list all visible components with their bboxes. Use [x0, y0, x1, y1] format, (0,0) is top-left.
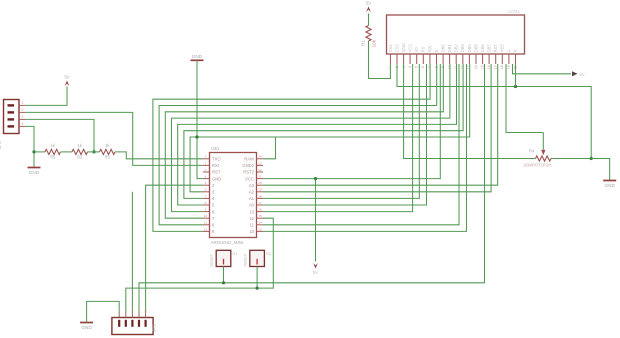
wire LCD data bundle 7 (to Arduino pin 3)	[190, 64, 470, 192]
ground (bottom)	[80, 323, 93, 330]
switch S1	[209, 250, 237, 266]
svg-text:A1: A1	[249, 196, 255, 201]
svg-text:K: K	[513, 49, 518, 52]
svg-text:GND: GND	[29, 170, 40, 175]
svg-text:RST: RST	[212, 170, 221, 175]
junction S1	[222, 281, 225, 284]
svg-text:5V: 5V	[366, 0, 371, 5]
wire JP2 pin2 to RXI	[26, 112, 203, 165]
junction LCD pin20 on GND rail	[514, 85, 517, 88]
svg-text:4: 4	[138, 309, 140, 313]
svg-text:RST2: RST2	[243, 170, 254, 175]
wire S1 to rail	[223, 267, 225, 283]
svg-text:RST: RST	[493, 44, 498, 53]
supply 5V (above R1)	[366, 0, 371, 12]
JP2 pins	[8, 104, 26, 127]
wire LCD data bundle 6 (to Arduino pin 4)	[184, 64, 463, 198]
wire Arduino 2 to JP1 pin5	[146, 185, 203, 312]
JP1 pins	[118, 313, 147, 327]
wire Arduino 11 to LCD	[263, 64, 459, 225]
junction S2	[256, 287, 259, 290]
svg-text:GND: GND	[604, 183, 615, 188]
resistor R3	[100, 143, 116, 159]
svg-text:5: 5	[205, 181, 207, 185]
svg-text:CS2: CS2	[394, 44, 399, 53]
svg-text:VCC: VCC	[245, 176, 254, 181]
wire Arduino A3 to LCD	[263, 64, 498, 185]
svg-text:R2: R2	[77, 155, 83, 160]
svg-text:GND: GND	[192, 54, 203, 59]
LCD module LCD1 outline	[387, 9, 525, 54]
svg-text:V0: V0	[414, 46, 419, 52]
svg-text:15: 15	[258, 214, 262, 218]
wire LCD data bundle 3 (to Arduino pin 7)	[165, 64, 443, 218]
wire Arduino A1 to LCD	[263, 64, 419, 198]
svg-text:19: 19	[507, 65, 511, 69]
svg-text:10: 10	[249, 229, 254, 234]
wire Arduino 13 to LCD	[263, 64, 413, 212]
JP2 pin numbers	[22, 101, 24, 126]
svg-text:9: 9	[205, 208, 207, 212]
svg-text:14: 14	[474, 65, 478, 69]
svg-text:13: 13	[249, 209, 254, 214]
svg-text:A0: A0	[249, 203, 255, 208]
svg-text:7: 7	[205, 194, 207, 198]
junction chain left	[32, 150, 35, 153]
svg-text:RAW: RAW	[244, 157, 254, 162]
svg-text:5: 5	[145, 309, 147, 313]
svg-text:2: 2	[22, 108, 24, 112]
ground (left)	[28, 168, 41, 175]
svg-text:TXO: TXO	[212, 157, 221, 162]
svg-text:DB1: DB1	[447, 44, 452, 53]
resistor R5	[34, 143, 61, 159]
svg-text:LCD1: LCD1	[509, 9, 521, 14]
svg-text:E: E	[434, 49, 439, 52]
resistor R1	[361, 14, 377, 48]
svg-text:3: 3	[131, 309, 133, 313]
svg-text:3: 3	[22, 115, 24, 119]
ground (right)	[603, 181, 616, 188]
svg-text:GND: GND	[401, 43, 406, 52]
svg-text:R3: R3	[105, 155, 111, 160]
svg-text:10: 10	[204, 214, 208, 218]
svg-text:DB6: DB6	[480, 44, 485, 53]
wire S1 rail	[139, 64, 485, 313]
connector JP2 outline	[0, 100, 19, 150]
svg-text:11: 11	[250, 223, 255, 228]
trimpot R4	[523, 133, 591, 168]
svg-text:R4: R4	[529, 149, 535, 154]
wire top GND to Arduino GND pin	[197, 60, 203, 178]
wire LCD data bundle 1 (to Arduino pin 9)	[153, 64, 430, 231]
svg-text:19: 19	[258, 188, 262, 192]
svg-text:12: 12	[249, 216, 254, 221]
svg-text:1: 1	[22, 101, 24, 105]
svg-text:23: 23	[258, 161, 262, 165]
svg-text:18: 18	[500, 65, 504, 69]
wire LCD pin19 to port	[513, 64, 572, 74]
svg-text:18: 18	[258, 194, 262, 198]
wire VCC branch to 5V arrow	[315, 179, 317, 262]
wire JP2 pin4 to GND	[26, 126, 34, 167]
wire R5-R2	[61, 151, 73, 153]
svg-text:U$1: U$1	[211, 146, 220, 151]
svg-text:RESET: RESET	[243, 253, 248, 267]
wire LCD data bundle 4 (to Arduino pin 6)	[172, 64, 450, 212]
svg-text:GND: GND	[81, 325, 92, 330]
svg-text:5V: 5V	[64, 74, 69, 79]
connector JP1 outline	[112, 318, 157, 335]
wire R3 to TXO	[115, 152, 203, 159]
wire Arduino 10 to LCD	[263, 64, 466, 231]
svg-text:6: 6	[421, 66, 425, 68]
wire R2-R3	[88, 151, 100, 153]
wire LCD pin2 GND rail	[397, 64, 591, 159]
port arrow 5V (right)	[572, 71, 585, 77]
svg-text:DB3: DB3	[460, 44, 465, 53]
svg-text:2: 2	[205, 161, 207, 165]
junction GND / bundle	[195, 135, 198, 138]
svg-text:21: 21	[258, 175, 262, 179]
wire S2 to rail	[256, 267, 258, 289]
switch S2	[243, 250, 271, 266]
resistor R2	[72, 143, 88, 159]
LCD pin numbers	[388, 65, 517, 69]
wire JP2 pin1 to 5V	[26, 87, 67, 106]
svg-text:14: 14	[258, 221, 262, 225]
svg-text:22: 22	[258, 168, 262, 172]
svg-text:1: 1	[118, 309, 120, 313]
svg-text:16: 16	[258, 208, 262, 212]
wire Arduino 3 branch to JP1 pin3	[131, 192, 133, 313]
JP1 pin numbers	[118, 309, 146, 313]
svg-text:5V: 5V	[313, 270, 318, 275]
svg-text:2: 2	[125, 309, 127, 313]
arduino pins	[203, 155, 263, 234]
svg-text:S2: S2	[266, 251, 271, 256]
svg-text:R5: R5	[50, 155, 56, 160]
wire R4 wiper to LCD pin18	[506, 64, 543, 133]
junction divider mid	[92, 150, 95, 153]
svg-text:5V: 5V	[580, 72, 585, 77]
junction GND rail / pot	[590, 157, 593, 160]
svg-text:JP1: JP1	[152, 324, 157, 332]
wire R1 to LCD pin1	[369, 41, 391, 79]
svg-text:S1: S1	[233, 251, 238, 256]
supply 5V (left)	[64, 74, 69, 86]
wire LCD pin3 to R4	[404, 64, 536, 159]
supply 5V (down)	[313, 263, 318, 275]
svg-text:11: 11	[204, 221, 207, 225]
svg-text:4: 4	[408, 66, 412, 68]
wire rail to GND symbol	[591, 159, 610, 181]
svg-text:ARDUINO_MINI: ARDUINO_MINI	[211, 240, 244, 245]
wire Arduino 12 to S2 rail	[126, 218, 273, 312]
svg-text:17: 17	[258, 201, 262, 205]
svg-text:15: 15	[480, 65, 484, 69]
wire bottom GND to JP1 pin1	[87, 301, 120, 322]
svg-text:1: 1	[388, 66, 392, 68]
svg-text:A2: A2	[249, 190, 255, 195]
svg-text:JP2: JP2	[0, 141, 2, 149]
svg-text:DB4: DB4	[467, 44, 472, 53]
svg-text:12: 12	[204, 227, 208, 231]
svg-text:4: 4	[22, 122, 24, 126]
svg-text:24: 24	[258, 155, 262, 159]
wire Arduino GND2 riser	[263, 137, 275, 159]
ground (top)	[191, 54, 204, 61]
svg-text:5: 5	[415, 66, 419, 68]
svg-text:RESET: RESET	[209, 253, 214, 267]
svg-text:3: 3	[205, 168, 207, 172]
svg-text:DB0: DB0	[441, 44, 446, 53]
svg-text:RS: RS	[421, 46, 426, 52]
svg-text:CS1: CS1	[388, 44, 393, 53]
svg-text:DB5: DB5	[473, 44, 478, 53]
svg-text:RXI: RXI	[212, 163, 219, 168]
wire JP2 pin3 to divider	[26, 119, 94, 151]
wire LCD pin20	[515, 64, 517, 87]
LCD pin stubs	[390, 54, 515, 64]
svg-text:VCC: VCC	[408, 44, 413, 53]
svg-text:10k: 10k	[372, 39, 377, 47]
svg-text:20: 20	[258, 181, 262, 185]
svg-text:GND2: GND2	[242, 163, 254, 168]
wire VCC to LCD VDD	[263, 64, 440, 179]
wire LCD data bundle 2 (to Arduino pin 8)	[159, 64, 437, 225]
svg-text:16WPOT1P1H: 16WPOT1P1H	[523, 162, 551, 167]
svg-text:VEE: VEE	[500, 44, 505, 52]
arduino U$1 outline	[210, 146, 257, 245]
svg-text:DB7: DB7	[487, 44, 492, 53]
wire LCD data bundle 5 (to Arduino pin 5)	[178, 64, 457, 205]
svg-text:1: 1	[205, 155, 207, 159]
wire Arduino A2 to LCD	[263, 64, 491, 192]
svg-text:DB2: DB2	[454, 44, 459, 53]
svg-text:13: 13	[258, 227, 262, 231]
svg-text:17: 17	[494, 65, 498, 69]
svg-text:16: 16	[487, 65, 491, 69]
svg-text:6: 6	[205, 188, 207, 192]
svg-text:4: 4	[205, 175, 207, 179]
svg-text:A: A	[506, 49, 511, 52]
wire Arduino A0 to LCD	[263, 64, 426, 205]
svg-text:A3: A3	[249, 183, 255, 188]
svg-text:R1: R1	[361, 40, 366, 46]
svg-text:GND: GND	[212, 176, 221, 181]
svg-text:8: 8	[205, 201, 207, 205]
junction VCC branch	[314, 177, 317, 180]
svg-text:RW: RW	[427, 45, 432, 52]
LCD pin names	[388, 43, 518, 52]
